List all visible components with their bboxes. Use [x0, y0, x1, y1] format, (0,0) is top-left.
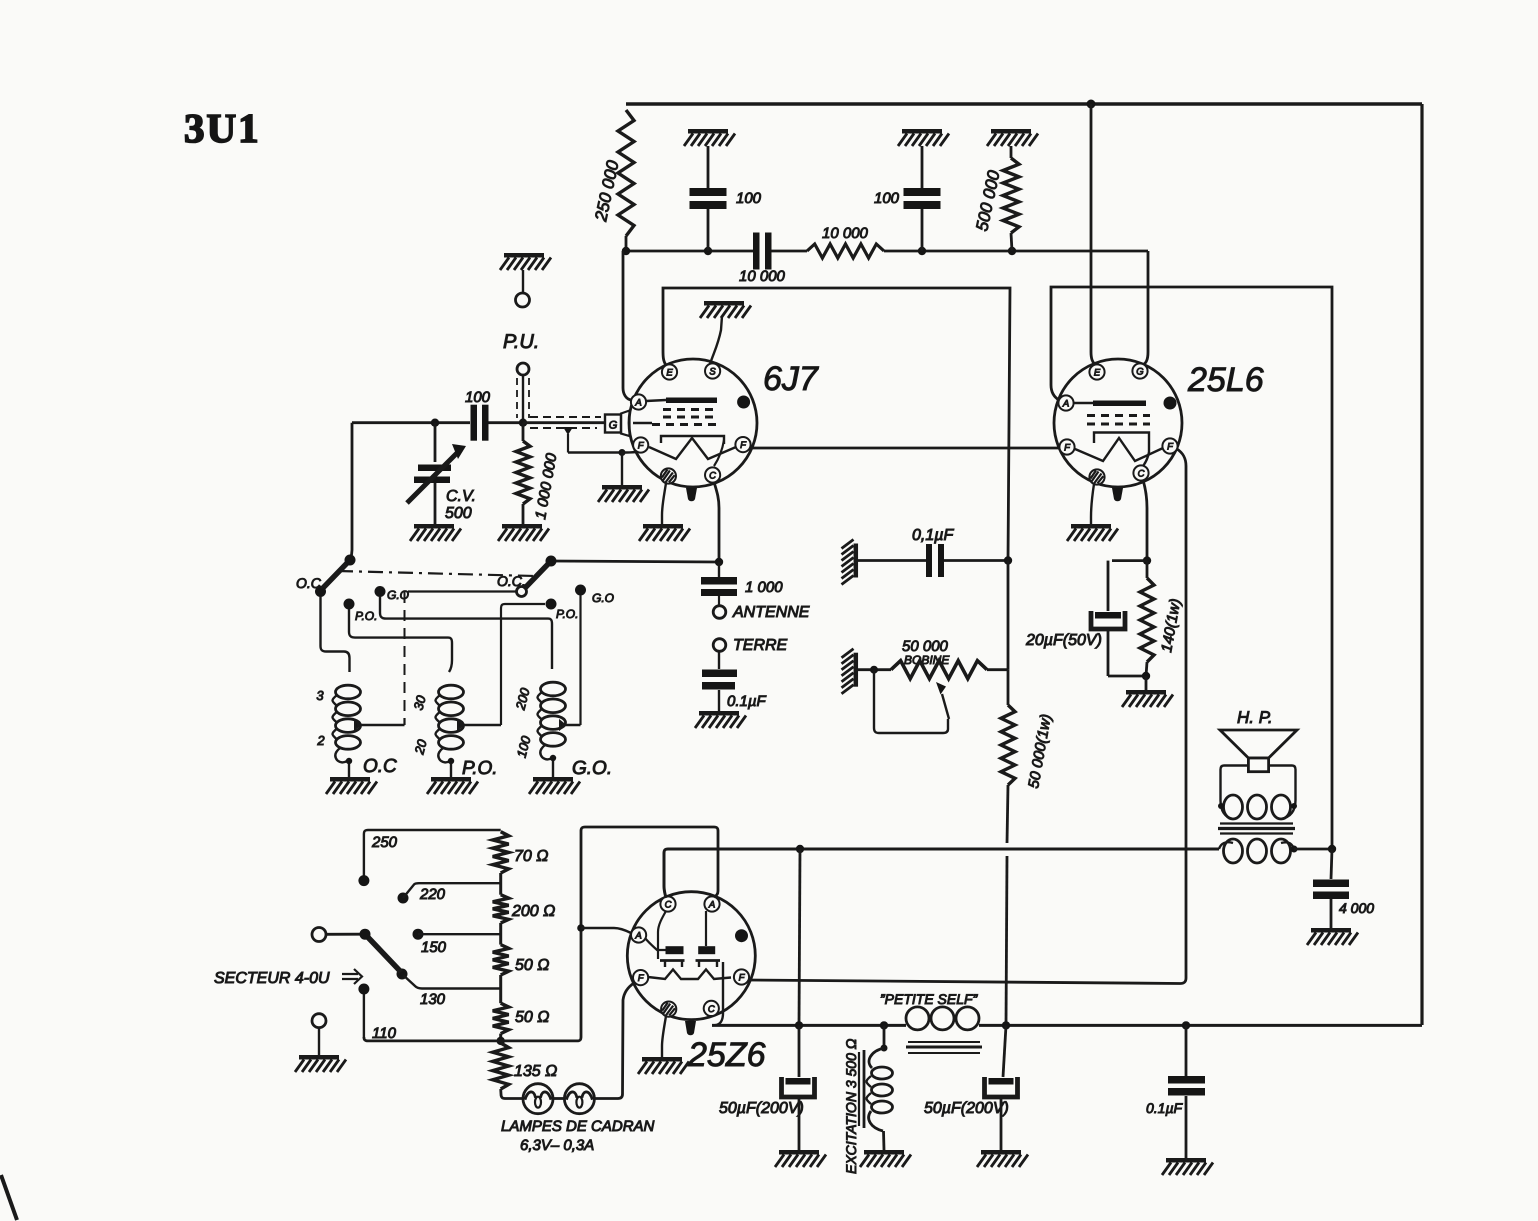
- wire chain s3: [499, 975, 502, 1003]
- tube 6J7 anode: [646, 400, 666, 401]
- contact G.O. right: [575, 585, 586, 596]
- capacitor 0.1uF mid: [858, 559, 926, 562]
- potentiometer 50 000 bobine: [858, 668, 891, 671]
- mech link dash-dot: [338, 571, 535, 576]
- wire 110 line: [363, 994, 365, 1037]
- tube 6J7 alignment dot: [737, 396, 750, 409]
- wire heater 6J7 to 25L6: [750, 447, 1060, 450]
- contact 250: [358, 875, 369, 886]
- svg-text:O.C: O.C: [363, 756, 397, 777]
- tube 25Z6 cathode 1: [660, 961, 685, 968]
- svg-text:C: C: [709, 470, 716, 481]
- resistor chain 50ohm b: [493, 1003, 509, 1033]
- svg-text:E: E: [666, 367, 673, 378]
- svg-text:25L6: 25L6: [1187, 361, 1264, 399]
- wire OC tap: [355, 721, 360, 729]
- svg-text:250: 250: [371, 834, 398, 851]
- ground 0.1uF mid: [854, 544, 859, 578]
- svg-text:50µF(200V): 50µF(200V): [719, 1100, 804, 1117]
- resistor 50 000 1w: [1007, 670, 1010, 705]
- tube 25Z6 pin A left: [631, 927, 646, 942]
- lamp dial 2: [564, 1084, 594, 1114]
- tube 6J7 heater: [649, 438, 736, 459]
- stray mark bottom left: [1, 1175, 17, 1220]
- variable capacitor C.V. 500: [434, 423, 437, 462]
- svg-text:A: A: [634, 397, 641, 408]
- node plate junction: [622, 247, 630, 255]
- svg-text:135 Ω: 135 Ω: [514, 1063, 557, 1080]
- svg-text:O.C.: O.C.: [296, 575, 325, 591]
- wire 25L6 plate to output transformer: [1051, 287, 1332, 849]
- wire lamp chain vertical: [594, 983, 634, 1099]
- switch blade OC right: [524, 561, 551, 589]
- wire B+ top rail: [626, 102, 1422, 106]
- resistor chain 200ohm: [493, 895, 509, 923]
- node transformer B+ junction: [1328, 845, 1336, 853]
- wire 220 tap: [403, 883, 501, 898]
- svg-text:25Z6: 25Z6: [687, 1036, 766, 1074]
- svg-text:0,1µF: 0,1µF: [912, 527, 954, 544]
- wire 130 tap: [402, 974, 501, 989]
- transformer primary: [1224, 839, 1243, 863]
- node screen divider bottom junction: [1002, 1021, 1010, 1029]
- svg-text:100: 100: [465, 389, 491, 406]
- tube 25Z6 cathode 2: [696, 961, 720, 968]
- wire to 20uF: [1112, 559, 1147, 562]
- contact G.O. left: [375, 586, 386, 597]
- svg-text:ANTENNE: ANTENNE: [732, 604, 810, 621]
- svg-text:10 000: 10 000: [822, 225, 869, 242]
- wire 25Z6 cathode2 to line rail: [712, 962, 723, 1025]
- wire shield ground run: [568, 451, 622, 453]
- ground 50uF no2: [981, 1150, 1021, 1155]
- node antenna junction: [715, 558, 723, 566]
- svg-text:200 Ω: 200 Ω: [511, 903, 555, 920]
- ground above cap 100 no2: [902, 129, 942, 134]
- svg-text:3U1: 3U1: [184, 105, 261, 151]
- node screen divider junction: [1004, 556, 1012, 564]
- resistor 250 000 plate load: [618, 110, 634, 236]
- svg-text:100: 100: [736, 190, 762, 207]
- node 500k junction: [1008, 247, 1016, 255]
- svg-text:110: 110: [372, 1025, 397, 1042]
- ground 6J7 cathode: [643, 524, 683, 529]
- svg-text:50µF(200V): 50µF(200V): [924, 1100, 1009, 1117]
- wire primary to plate drop: [1294, 848, 1332, 851]
- wire OC blade contact to OC coil: [321, 596, 350, 672]
- wire PO-left to PO coil: [349, 609, 452, 672]
- resistor 1 000 000 grid leak: [522, 423, 525, 441]
- coil P.O.: [439, 685, 464, 699]
- wire P.U. screened lead: [522, 375, 524, 422]
- tube 25L6 heater: [1075, 438, 1163, 461]
- tube 25Z6 envelope: [627, 892, 755, 1020]
- wire 25Z6 unused pin ground: [662, 1016, 666, 1057]
- wire voice coil left: [1221, 766, 1249, 801]
- resistor 10 000 series: [807, 244, 884, 258]
- coil O.C.: [336, 685, 361, 699]
- wire 250 tap: [363, 834, 365, 881]
- svg-text:”PETITE SELF”: ”PETITE SELF”: [880, 991, 979, 1007]
- svg-text:C: C: [1138, 468, 1145, 479]
- resistor chain 70ohm: [493, 832, 509, 873]
- svg-text:S: S: [709, 366, 716, 377]
- capacitor 0.1uF terre: [718, 652, 720, 669]
- svg-text:220: 220: [419, 886, 446, 903]
- svg-text:6J7: 6J7: [763, 360, 819, 398]
- ground 6J7 heater left: [602, 485, 642, 490]
- wire grid line to switch pivot: [350, 423, 352, 560]
- svg-text:4 000: 4 000: [1339, 900, 1374, 916]
- svg-text:E: E: [1094, 367, 1101, 378]
- wire filter cap1 vertical: [799, 849, 800, 1025]
- wire lamp1-lamp2: [553, 1097, 564, 1100]
- svg-text:G: G: [1136, 366, 1143, 377]
- tube 6J7 pin F left: [633, 437, 648, 452]
- node cap1 junction: [704, 247, 712, 255]
- speaker voice coil: [1248, 758, 1268, 772]
- svg-text:C.V.: C.V.: [446, 488, 476, 505]
- wire grid line left: [352, 421, 470, 424]
- wire 25L6 cathode ground: [1091, 484, 1094, 524]
- switch blade secteur: [365, 934, 401, 972]
- capacitor 20uF 50V: [1095, 612, 1121, 619]
- svg-text:P.O.: P.O.: [355, 609, 377, 623]
- tube 6J7 pin E: [662, 364, 677, 379]
- tube 25L6 pin C: [1133, 465, 1148, 480]
- node cap2 junction: [918, 247, 926, 255]
- svg-text:6,3V– 0,3A: 6,3V– 0,3A: [520, 1137, 594, 1154]
- shield dashes P.U. vertical: [516, 378, 518, 418]
- node 25Z6 anode left junction: [577, 924, 585, 932]
- tube 25Z6 pin F left: [633, 970, 648, 985]
- svg-text:TERRE: TERRE: [733, 637, 788, 654]
- wire pot wiper loop: [874, 670, 948, 733]
- wire band switch to antenna node: [551, 561, 719, 562]
- ground 4000: [1311, 928, 1351, 933]
- svg-text:SECTEUR 4-0U: SECTEUR 4-0U: [214, 970, 330, 987]
- pot wiper arm: [942, 694, 949, 719]
- terminal P.U. lower: [517, 363, 529, 375]
- svg-text:C: C: [665, 899, 672, 910]
- svg-text:A: A: [708, 899, 715, 910]
- wire screen divider vertical upper: [1007, 561, 1010, 670]
- tube 25Z6 pin C bottom: [704, 1001, 719, 1016]
- ground 25L6 bias: [1126, 690, 1166, 695]
- tube 25Z6 anode 2: [698, 946, 715, 954]
- excitation field coil: [883, 1025, 886, 1046]
- tube 25Z6 anode2 lead: [705, 911, 707, 946]
- contact P.O. right: [546, 599, 557, 610]
- capacitor 100 no1: [707, 146, 710, 188]
- wire 6J7 C pin down: [714, 482, 719, 562]
- wire 6J7 plate lead: [623, 251, 631, 400]
- transformer secondary: [1224, 795, 1243, 819]
- contact 130: [397, 969, 408, 980]
- svg-text:2: 2: [316, 733, 325, 748]
- node 25L6 cathode junction: [1143, 556, 1151, 564]
- shield drop triangle: [563, 427, 573, 435]
- wire voice coil right: [1269, 766, 1296, 801]
- capacitor 50uF no1: [798, 1025, 801, 1077]
- wire 25L6 F right drop: [748, 449, 1186, 984]
- tube 25L6 alignment dot: [1164, 397, 1177, 410]
- wire screen divider vertical lower: [1006, 856, 1007, 1025]
- tube 25Z6 pin F right: [734, 969, 749, 984]
- ground 0.1uF line: [1166, 1158, 1206, 1163]
- node pot left junction: [870, 666, 878, 674]
- wire 6J7 suppressor to ground: [710, 316, 722, 364]
- tube 25Z6 key: [685, 1021, 696, 1035]
- tube 6J7 pin A: [631, 394, 646, 409]
- svg-text:20µF(50V): 20µF(50V): [1025, 632, 1102, 649]
- capacitor 50uF no2: [1003, 1025, 1006, 1077]
- svg-text:3: 3: [316, 688, 324, 703]
- svg-text:G.O.: G.O.: [572, 758, 612, 779]
- resistor chain 135ohm: [493, 1043, 509, 1089]
- tube 25L6 envelope: [1054, 359, 1182, 487]
- capacitor 4000 tone: [1331, 849, 1332, 879]
- tube 25Z6 unused pin: [661, 1002, 676, 1017]
- wire 25L6 grid drop: [1143, 251, 1148, 365]
- tube 25Z6 anode1 lead: [645, 938, 666, 950]
- tube 6J7 pin C: [705, 467, 720, 482]
- tube 6J7 pin S: [705, 363, 720, 378]
- resistor chain 50ohm a: [493, 945, 509, 975]
- wire GO coil bottom: [540, 745, 553, 777]
- svg-text:50 Ω: 50 Ω: [515, 957, 549, 974]
- wire 25L6 C pin down: [1143, 480, 1147, 561]
- wire to ground 140: [1145, 676, 1148, 690]
- wire right edge B+ drop: [1420, 104, 1423, 1025]
- excitation core: [858, 1052, 860, 1126]
- tube 6J7 pin F right: [735, 437, 750, 452]
- tube 25Z6 cathode1 lead: [658, 911, 666, 959]
- lamp dial 1: [523, 1084, 553, 1114]
- petite self core: [908, 1041, 980, 1043]
- ground above P.U.: [504, 253, 544, 258]
- wire PO-right to PO coil tap: [501, 604, 545, 725]
- contact 220: [398, 893, 409, 904]
- svg-text:100: 100: [874, 190, 900, 207]
- svg-text:50 Ω: 50 Ω: [515, 1009, 549, 1026]
- ground coil G.O.: [533, 777, 573, 782]
- tube 25L6 unused pin: [1089, 469, 1104, 484]
- svg-text:BOBINE: BOBINE: [904, 653, 950, 667]
- ground 25Z6 pin: [642, 1057, 682, 1062]
- svg-text:EXCITATION 3 500 Ω: EXCITATION 3 500 Ω: [843, 1038, 859, 1174]
- svg-text:P.U.: P.U.: [503, 331, 539, 353]
- ground 6J7 suppressor: [704, 301, 744, 306]
- tube 25L6 pin F right: [1162, 438, 1177, 453]
- svg-text:G.O: G.O: [592, 591, 614, 605]
- tube 25L6 pin A: [1058, 395, 1073, 410]
- tube 6J7 cathode: [661, 436, 724, 444]
- wire line rail left: [712, 1024, 906, 1027]
- tube 25L6 pin G: [1132, 363, 1147, 378]
- tube 25L6 anode: [1073, 402, 1093, 404]
- node shield ground junction: [619, 449, 626, 456]
- wire chain s1: [499, 873, 502, 895]
- wire OC coil bottom: [335, 748, 349, 777]
- wire grid lead to cap G: [523, 421, 605, 424]
- ground coil P.O.: [431, 777, 471, 782]
- node 110 junction: [497, 1037, 505, 1045]
- svg-text:500: 500: [445, 505, 472, 522]
- wire chain s2: [499, 923, 502, 945]
- wire GO tap: [560, 721, 565, 729]
- mech link vertical dashed: [404, 592, 406, 722]
- svg-text:LAMPES DE CADRAN: LAMPES DE CADRAN: [501, 1118, 655, 1135]
- shield dashes grid lead: [530, 416, 601, 418]
- svg-text:G.O: G.O: [387, 588, 409, 602]
- wire GO-right to GO coil tap: [579, 595, 581, 725]
- petite self coil: [906, 1007, 929, 1030]
- tube 6J7 grid lead inside: [633, 422, 652, 424]
- ground 50uF no1: [779, 1150, 819, 1155]
- wire GO-left to GO coil: [379, 596, 381, 613]
- svg-text:0.1µF: 0.1µF: [1146, 1100, 1184, 1116]
- node CV junction: [431, 419, 439, 427]
- wire 25Z6 cathode1 to B+ rail: [664, 849, 796, 898]
- node line bypass junction: [1182, 1021, 1190, 1029]
- switch blade OC left: [321, 560, 350, 590]
- node 140 bottom junction: [1142, 672, 1150, 680]
- terminal TERRE: [713, 639, 726, 652]
- wire OCright contact to OC coil tap: [408, 590, 516, 592]
- ground potentiometer: [854, 653, 859, 687]
- ground 25L6 cathode: [1071, 524, 1111, 529]
- capacitor 100 no2: [921, 146, 924, 188]
- tube 25L6 grids dashes: [1087, 414, 1150, 417]
- wire 6J7 Fleft to ground: [622, 450, 646, 485]
- capacitor 0.1uF line bypass: [1185, 1025, 1188, 1076]
- tube 25Z6 pin A top: [704, 896, 719, 911]
- svg-text:H. P.: H. P.: [1237, 708, 1273, 727]
- ground terre cap: [699, 711, 739, 716]
- svg-text:C: C: [708, 1004, 715, 1015]
- tube 6J7 grids dashes: [663, 408, 719, 411]
- wire chain s4: [499, 1034, 502, 1043]
- wire grid coupling rail: [626, 250, 753, 253]
- ground above cap 100 no1: [688, 129, 728, 134]
- resistor 140 1w: [1146, 561, 1149, 578]
- contact 150: [413, 929, 424, 940]
- svg-text:10 000: 10 000: [739, 268, 786, 285]
- capacitor 1000 antenna: [718, 562, 720, 577]
- tube 25Z6 anode 1: [666, 946, 684, 954]
- svg-text:0.1µF: 0.1µF: [727, 693, 766, 710]
- wire 20uF bottom: [1107, 629, 1110, 676]
- tube 25Z6 pin C top: [660, 896, 675, 911]
- node cap 50uF no1 junction: [795, 1021, 803, 1029]
- contact 110: [358, 984, 369, 995]
- wire PO tap: [458, 721, 463, 729]
- wire PO coil bottom: [438, 748, 451, 777]
- svg-text:G: G: [609, 420, 618, 432]
- terminal secteur neutral: [312, 1014, 326, 1028]
- svg-text:1 000: 1 000: [745, 579, 783, 596]
- wire anode top feed: [581, 827, 718, 897]
- tube 6J7 key: [686, 488, 697, 501]
- resistor 500 000: [1010, 146, 1013, 158]
- wire 150 tap: [418, 933, 501, 935]
- svg-text:150: 150: [421, 939, 447, 956]
- svg-text:130: 130: [420, 991, 446, 1008]
- ground coil O.C.: [330, 777, 370, 782]
- ground below C.V.: [414, 524, 454, 529]
- tube 25Z6 alignment dot: [735, 929, 748, 942]
- wire 6J7 screen feed bracket: [663, 288, 1010, 561]
- svg-text:P.O.: P.O.: [462, 758, 498, 779]
- coil G.O.: [541, 682, 566, 696]
- tube 25L6 pin F left: [1059, 439, 1074, 454]
- wire 25L6 screen drop: [1091, 104, 1095, 365]
- wire 6J7 cathode pin to ground: [662, 483, 666, 524]
- node excitation junction: [880, 1021, 888, 1029]
- svg-text:70 Ω: 70 Ω: [514, 848, 548, 865]
- wire line rail right: [979, 1024, 1422, 1027]
- wire 25Z6 anode left feed: [581, 928, 631, 933]
- transformer core: [1220, 822, 1293, 824]
- tube 25L6 cathode: [1094, 433, 1149, 467]
- capacitor 10 000 coupling: [753, 233, 760, 270]
- ground secteur: [299, 1055, 339, 1060]
- tube 25L6 pin E: [1089, 364, 1104, 379]
- svg-text:P.O.: P.O.: [556, 607, 578, 621]
- terminal P.U. upper: [522, 270, 524, 293]
- wire B+ rail to transformer: [804, 848, 1219, 851]
- speaker cone: [1220, 730, 1297, 758]
- wire grid line mid: [488, 421, 523, 424]
- tube 25Z6 heater: [648, 970, 731, 980]
- tube 6J7 envelope: [629, 359, 757, 487]
- ground below 1 000 000: [502, 524, 542, 529]
- terminal ANTENNE: [713, 606, 726, 619]
- tube 6J7 unused pin: [661, 468, 676, 483]
- node B+ / 25L6 screen junction: [1087, 100, 1096, 109]
- ground excitation: [864, 1150, 904, 1155]
- node B+ filter junction: [796, 845, 804, 853]
- capacitor 100 grid series: [471, 405, 478, 441]
- ground above resistor 500 000: [991, 129, 1031, 134]
- tube 6J7 grid cap G box: [605, 415, 621, 433]
- node PU junction: [519, 419, 527, 427]
- svg-text:A: A: [634, 930, 641, 941]
- svg-text:A: A: [1062, 398, 1069, 409]
- wire 135 to lamp1: [501, 1089, 523, 1099]
- contact P.O. left: [344, 599, 355, 610]
- terminal secteur live: [312, 928, 326, 942]
- tube 25L6 key: [1112, 488, 1123, 501]
